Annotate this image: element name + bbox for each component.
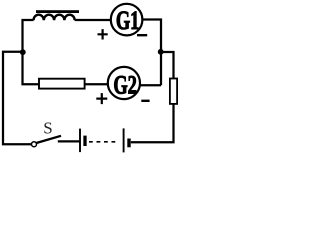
battery dashed link <box>89 141 118 143</box>
switch S contact circle <box>32 142 37 147</box>
inductor L coil <box>34 15 75 21</box>
svg-text:G2: G2 <box>113 70 137 99</box>
wire: middle resistor to G2 <box>85 83 108 85</box>
battery cell 1 short thick plate (-) <box>83 136 86 146</box>
galvanometer G1 circle <box>111 4 143 36</box>
wire: switch to battery <box>58 140 80 142</box>
battery cell 2 long plate (+) <box>123 128 125 152</box>
wire: node B to right resistor top <box>161 52 174 79</box>
G2 minus sign <box>141 100 149 102</box>
wire: node B down to G2 branch <box>160 52 162 85</box>
resistor R2 (right) box <box>170 79 177 104</box>
wire: G2 to right vertical <box>140 84 161 86</box>
wire: G1 to top-right corner down to node B <box>142 20 161 50</box>
node A junction dot <box>20 49 26 55</box>
wire: node A left, outer-left vertical, to bottom-left corner <box>3 52 32 145</box>
switch S blade <box>36 136 61 143</box>
battery cell 1 long plate (+) <box>79 129 81 153</box>
wire: node A down to middle resistor <box>23 52 40 84</box>
G1 minus sign <box>137 34 147 36</box>
inductor iron core bar <box>36 10 79 13</box>
G1 plus sign <box>98 29 108 39</box>
node B junction dot <box>158 49 164 55</box>
wire: left branch top corner (node A up to inductor) <box>23 20 34 52</box>
wire: inductor to G1 <box>75 19 111 21</box>
G2 plus sign <box>96 93 107 104</box>
svg-text:S: S <box>43 118 52 137</box>
resistor R (middle) box <box>39 79 85 89</box>
wire: battery to bottom-right corner up to right resistor <box>131 104 174 142</box>
galvanometer G2 circle <box>108 67 140 99</box>
svg-text:G1: G1 <box>116 6 140 35</box>
battery cell 2 short thick plate (-) <box>127 139 130 148</box>
